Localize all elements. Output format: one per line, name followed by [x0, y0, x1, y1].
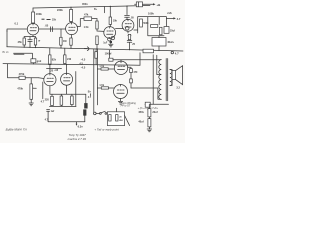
wire V5 plate	[49, 64, 51, 73]
svg-text:1uF: 1uF	[103, 42, 108, 44]
node pin circle B	[111, 36, 114, 39]
wire short heater	[47, 68, 62, 70]
wire V1 grid	[7, 29, 27, 47]
svg-text:220k: 220k	[57, 8, 63, 12]
tube V3	[104, 27, 116, 39]
resistor R12	[64, 48, 72, 64]
svg-text:0.1: 0.1	[15, 21, 19, 25]
svg-text:100k: 100k	[36, 12, 43, 16]
ground pot	[29, 99, 33, 105]
resistor R5 10k plate V3	[109, 6, 117, 26]
svg-text:470: 470	[133, 71, 138, 74]
wire V8 cathode	[120, 99, 122, 102]
svg-text:To in: To in	[2, 50, 9, 54]
resistor Rk2	[70, 35, 72, 48]
capacitor C5 box	[164, 27, 175, 34]
wire V6 plate	[66, 65, 68, 74]
wire OT ct	[157, 55, 161, 74]
wire PSU top stub	[115, 108, 117, 112]
wire to B+ arrow	[143, 3, 162, 7]
transformer T1 secondary	[170, 70, 172, 86]
wire cathode bottom	[50, 105, 77, 107]
wire stub x104	[104, 7, 106, 13]
wire input line	[14, 53, 33, 59]
svg-text:+ Tail or early point: + Tail or early point	[94, 127, 119, 131]
svg-text:6.3v: 6.3v	[78, 124, 84, 128]
ground V8	[118, 101, 122, 104]
speaker SP1	[172, 66, 183, 90]
wire V8 plate to OT	[131, 88, 161, 99]
wire V7 plate to OT	[113, 60, 161, 62]
svg-text:1.5k: 1.5k	[99, 65, 104, 68]
svg-text:82k: 82k	[52, 59, 57, 62]
wire ground bus C	[3, 64, 140, 66]
wire long rail b	[96, 49, 98, 105]
wire output arrow 4.7	[166, 12, 181, 21]
svg-text:350v: 350v	[82, 2, 88, 6]
wire cathode link	[50, 72, 86, 107]
wire V1-V2 coupling	[39, 28, 66, 30]
network feedback box	[138, 17, 167, 36]
resistor R2 220k plate V2	[57, 7, 73, 22]
svg-text:470k: 470k	[17, 87, 23, 91]
resistor R20 screen feed	[109, 50, 113, 61]
tube V7 6V6	[114, 61, 127, 74]
svg-text:220: 220	[45, 99, 50, 102]
component box chassis	[145, 102, 150, 107]
ground cluster	[109, 43, 113, 47]
wire V3 bottom stub	[109, 37, 111, 40]
svg-text:.05: .05	[130, 17, 134, 20]
svg-text:47k: 47k	[84, 12, 89, 16]
wire long rail a	[93, 49, 95, 112]
wire bottom rail	[145, 103, 169, 105]
tube V8 6V6	[114, 85, 128, 99]
node PSU terminal	[94, 112, 97, 115]
svg-text:100uf: 100uf	[105, 52, 112, 56]
svg-text:1.5k: 1.5k	[99, 84, 104, 87]
svg-text:B+: B+	[88, 90, 92, 94]
capacitor C7 connector	[84, 47, 89, 51]
svg-text:4.7: 4.7	[177, 17, 181, 21]
svg-text:-4.5: -4.5	[81, 57, 86, 61]
resistor R10 1.5k on bus	[143, 49, 154, 53]
svg-text:Tony Ty 1947: Tony Ty 1947	[69, 133, 87, 137]
wire secondary	[170, 70, 172, 86]
transformer T2 power	[107, 112, 124, 126]
wire right drop	[139, 53, 141, 65]
node bus B dots	[24, 47, 25, 48]
svg-text:3.2: 3.2	[176, 87, 180, 90]
node output terminal 4.7	[171, 51, 179, 55]
label B+	[88, 90, 92, 99]
resistor Rk1 25k	[18, 37, 26, 48]
wire V4 out	[128, 30, 138, 33]
capacitor blob	[110, 41, 112, 43]
resistor R17	[71, 94, 74, 104]
resistor R6 cathode V3	[96, 36, 98, 49]
ground PSU	[147, 127, 152, 132]
capacitor C11 20uf	[138, 109, 157, 117]
resistor Rk1b	[34, 37, 40, 48]
svg-text:25k: 25k	[18, 41, 23, 44]
node pin circle A	[108, 38, 111, 41]
transformer T1 core	[166, 59, 168, 101]
node grid junction	[6, 30, 7, 31]
wire V3 to V4	[116, 28, 124, 30]
node bus A junctions	[70, 7, 71, 8]
svg-text:40uf: 40uf	[138, 120, 143, 123]
tube V5	[44, 74, 56, 86]
capacitor C8 electrolytic	[84, 94, 87, 108]
svg-text:450v: 450v	[138, 111, 144, 114]
svg-text:25uf: 25uf	[170, 29, 175, 32]
resistor R18 1.5k grid V7	[97, 65, 114, 70]
node plate dots	[49, 64, 50, 65]
transformer T1 primary	[159, 60, 161, 100]
svg-text:4.7: 4.7	[175, 52, 179, 56]
resistor R21 470 screen	[128, 67, 138, 88]
wire mid bus B	[7, 47, 183, 51]
wire to V5 grid	[39, 77, 44, 80]
tube V1	[27, 24, 38, 35]
resistor R4 1.5k	[84, 19, 104, 32]
wire OT rail	[152, 55, 154, 105]
svg-text:1.5k: 1.5k	[84, 26, 89, 29]
component X1 box	[31, 59, 42, 64]
svg-text:gnd: gnd	[37, 60, 42, 63]
wire PSU cap feed	[148, 104, 150, 108]
svg-text:4.5: 4.5	[79, 61, 83, 65]
svg-text:470k: 470k	[19, 72, 25, 76]
label note	[121, 102, 137, 108]
capacitor C4 .25	[127, 34, 135, 49]
resistor R16	[60, 94, 63, 105]
svg-text:10k: 10k	[113, 19, 118, 22]
resistor R14 470k	[19, 72, 39, 80]
tube V2	[66, 23, 78, 35]
capacitor C9 input cap	[47, 110, 55, 122]
capacitor C10 electrolytic	[83, 109, 86, 121]
capacitor Ck1	[28, 37, 32, 48]
resistor R11 82k	[49, 48, 57, 65]
node arrow 6.3v	[76, 122, 84, 129]
capacitor C2 .05	[45, 23, 53, 31]
svg-text:-4.5: -4.5	[81, 66, 86, 70]
svg-text:1uf: 1uf	[51, 110, 55, 113]
svg-text:40uf+: 40uf+	[167, 40, 174, 44]
resistor R15 220	[45, 94, 54, 105]
svg-text:w: w	[38, 39, 40, 42]
capacitor C3 .05	[125, 6, 135, 20]
svg-text:Eddie Mann Co: Eddie Mann Co	[6, 127, 28, 131]
resistor R9	[159, 27, 162, 35]
capacitor C12 40uf	[138, 117, 151, 127]
wire V1 cathode rail	[24, 35, 35, 37]
svg-text:#40: #40	[67, 58, 72, 61]
svg-text:PP to OT: PP to OT	[121, 105, 131, 108]
svg-text:1M: 1M	[63, 40, 66, 43]
svg-text:100k: 100k	[148, 11, 154, 15]
resistor R1 100k plate V1	[32, 8, 43, 24]
wire B+ top bus	[33, 6, 150, 9]
resistor R7 500k	[140, 19, 150, 27]
svg-text:.05: .05	[45, 23, 49, 27]
resistor R3 47k screen feed	[77, 12, 97, 26]
wire diagonal	[125, 116, 130, 126]
wire pot feed	[8, 64, 20, 78]
svg-text:martins 2.7.93: martins 2.7.93	[68, 137, 87, 141]
resistor R13	[95, 49, 97, 65]
resistor R19 1.5k grid V8	[97, 84, 113, 89]
wire heater line	[48, 121, 85, 123]
tube V4	[122, 19, 134, 31]
label cluster	[42, 19, 45, 20]
resistor R8	[151, 25, 158, 28]
svg-text:2.2k: 2.2k	[167, 12, 172, 15]
capacitor C6 40uf can	[152, 36, 175, 51]
svg-text:500k: 500k	[143, 22, 149, 25]
potentiometer VR1 470k	[17, 78, 36, 100]
wire drop x43	[41, 82, 45, 103]
tube V6	[61, 73, 73, 85]
svg-text:20uf: 20uf	[152, 111, 157, 114]
switch S1 box top right	[135, 2, 143, 7]
resistor Rg2 1M	[60, 29, 67, 48]
switch S2	[96, 111, 107, 114]
svg-text:25k: 25k	[52, 19, 57, 22]
